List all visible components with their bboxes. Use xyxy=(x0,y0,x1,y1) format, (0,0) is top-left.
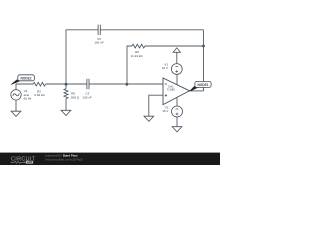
supply arrow above V1 xyxy=(173,48,180,52)
wire C3 to op-amp inverting input xyxy=(89,83,163,85)
wire junction to R5 xyxy=(65,84,67,89)
voltage source V2 xyxy=(172,106,183,117)
wire R6 left lead and down leg xyxy=(127,46,132,84)
svg-text:100 nF: 100 nF xyxy=(94,41,104,45)
wire V1 to op-amp V+ pin xyxy=(176,74,178,84)
footer CircuitLab logo xyxy=(11,157,36,165)
node tag NODE1 xyxy=(195,81,211,87)
label C3 xyxy=(82,92,92,100)
label R5 xyxy=(71,91,80,99)
svg-text:16 V: 16 V xyxy=(162,66,168,70)
node tag NODE2 pointer xyxy=(10,80,21,85)
svg-text:100 nF: 100 nF xyxy=(82,95,92,99)
ground under op-amp non-inverting input xyxy=(144,116,154,121)
node tag NODE2 xyxy=(18,75,35,81)
junction node at feedback riser xyxy=(202,45,205,48)
svg-text:60 Hz: 60 Hz xyxy=(24,96,32,100)
svg-text:16 V: 16 V xyxy=(162,109,168,113)
wire V3 bottom to ground xyxy=(15,100,17,111)
footer bar xyxy=(0,153,220,165)
wire op-amp non-inverting input to ground xyxy=(149,95,163,116)
label R2 xyxy=(34,89,45,97)
wire V2 bottom to ground xyxy=(176,117,178,127)
wire V3 top to R2 xyxy=(16,84,33,90)
wire R2 to C3 xyxy=(46,83,87,85)
voltage source V1 xyxy=(171,64,182,75)
ground under V2 xyxy=(172,127,182,132)
svg-text:0.62 kΩ: 0.62 kΩ xyxy=(34,93,45,97)
junction node at R5 xyxy=(65,83,68,86)
svg-text:11.24 kΩ: 11.24 kΩ xyxy=(131,54,144,58)
wire op-amp output xyxy=(189,90,203,92)
wire top horizontal left of C5 xyxy=(66,29,98,31)
capacitor C5 xyxy=(98,25,100,35)
resistor R2 xyxy=(33,82,45,86)
wire left riser xyxy=(65,30,67,84)
voltage source V3 sine xyxy=(11,90,21,100)
label V2 xyxy=(162,106,169,113)
ground under R5 xyxy=(61,110,71,115)
svg-text:http://circuitlab.com/c2874p2/: http://circuitlab.com/c2874p2/ xyxy=(46,158,84,162)
resistor R5 xyxy=(64,89,68,99)
label V1 xyxy=(162,63,169,70)
wire R6 right lead xyxy=(145,45,204,47)
wire V1 top to supply arrow xyxy=(176,52,178,63)
node tag NODE1 pointer xyxy=(189,86,199,92)
wire right riser feedback xyxy=(203,30,205,91)
junction node at R6 leg xyxy=(126,83,129,86)
label C5 xyxy=(94,37,104,45)
svg-text:TL082: TL082 xyxy=(167,87,175,91)
wire top horizontal right of C5 xyxy=(100,29,203,31)
ground under V3 xyxy=(11,111,21,116)
svg-text:NODE1: NODE1 xyxy=(198,83,209,87)
wire op-amp V- pin to V2 xyxy=(176,97,178,106)
wire R5 to ground xyxy=(65,99,67,111)
resistor R6 xyxy=(132,44,145,48)
capacitor C3 xyxy=(87,79,89,89)
svg-text:500 Ω: 500 Ω xyxy=(71,95,80,99)
footer title text xyxy=(45,154,84,162)
svg-text:NODE2: NODE2 xyxy=(21,76,32,80)
svg-text:LAB: LAB xyxy=(27,161,32,164)
op-amp OA1 xyxy=(163,78,190,105)
label R6 xyxy=(131,50,144,58)
label V3 xyxy=(24,89,32,100)
